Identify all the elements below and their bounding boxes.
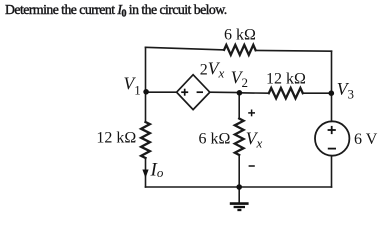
wire top (left corner to right corner) [146, 47, 225, 50]
minus sign in 6V source [328, 148, 336, 150]
wire V2 down to 6k [238, 93, 240, 119]
wire left vertical lower (through I0 arrow) [145, 158, 147, 187]
svg-text:6 V: 6 V [354, 131, 378, 148]
svg-text:6 kΩ: 6 kΩ [199, 131, 231, 148]
ground stub [238, 187, 240, 203]
wire diamond to V2 [210, 91, 239, 93]
wire resistor to V3 [303, 92, 332, 94]
node V2 dot [237, 90, 243, 96]
ground bars [230, 204, 249, 210]
svg-text:6 kΩ: 6 kΩ [224, 27, 256, 44]
resistor R2 12k horizontal zigzag [269, 88, 303, 98]
svg-text:12 kΩ: 12 kΩ [266, 70, 306, 87]
voltage source V6 circle [315, 121, 349, 155]
resistor R3 6k vertical zigzag [235, 119, 244, 156]
node junction bottom dot [236, 184, 242, 190]
node V1 dot [143, 89, 149, 95]
minus sign in diamond [197, 91, 203, 93]
wire right vertical upper [331, 51, 333, 121]
wire middle horizontal V1 to diamond [146, 91, 177, 93]
current I0 arrowhead [142, 170, 148, 179]
wire bottom [146, 186, 332, 188]
resistor R1 12k vertical zigzag [141, 122, 150, 158]
wire left vertical upper [145, 47, 147, 122]
dependent source U1 diamond [177, 75, 210, 110]
svg-text:12 kΩ: 12 kΩ [96, 130, 136, 147]
wire 6k to bottom junction [238, 155, 240, 187]
resistor R-top 6k zigzag [224, 45, 256, 55]
plus sign Vx polarity [248, 110, 255, 117]
svg-text:Determine the current I0 in th: Determine the current I0 in the circuit … [5, 2, 227, 20]
minus sign Vx polarity [249, 165, 255, 167]
plus sign in 6V source [328, 126, 336, 134]
plus sign in diamond [181, 89, 188, 96]
node V3 dot [329, 90, 335, 96]
wire top right segment [256, 49, 332, 52]
wire V2 to resistor 12k [239, 92, 269, 94]
wire right vertical lower [331, 156, 333, 187]
